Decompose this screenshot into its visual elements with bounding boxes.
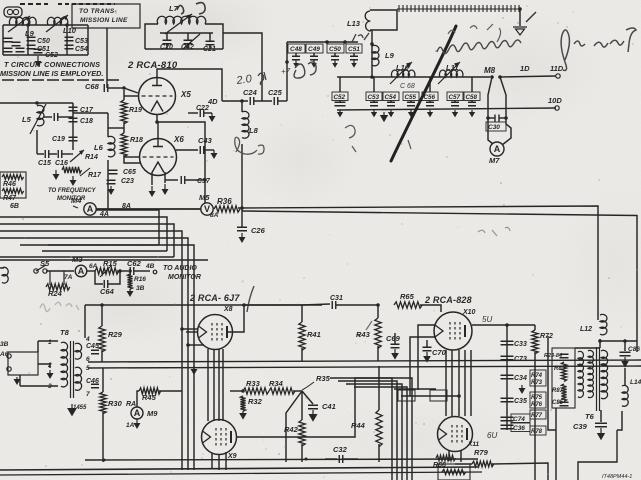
wire C55 lead xyxy=(410,101,412,103)
label C34 xyxy=(514,375,527,382)
capacitor C52i xyxy=(34,49,43,53)
wire tank bottom xyxy=(145,48,223,50)
junction x5 cath xyxy=(155,120,159,124)
label R34 xyxy=(269,379,284,388)
svg-text:R24: R24 xyxy=(48,289,63,298)
svg-text:R75: R75 xyxy=(531,395,543,401)
junction c62 xyxy=(128,269,132,273)
label C53 xyxy=(75,38,88,45)
meter M5 xyxy=(201,203,213,215)
svg-text:C25: C25 xyxy=(268,88,283,97)
wire bus line 2 xyxy=(0,217,167,251)
capacitor C42 xyxy=(184,40,193,44)
svg-text:C64: C64 xyxy=(100,287,115,296)
label C19 xyxy=(52,136,65,143)
label X5 xyxy=(180,90,191,99)
svg-text:C53: C53 xyxy=(368,94,380,101)
left edge coil wire xyxy=(0,267,4,269)
capacitor C56 sym xyxy=(426,102,434,106)
svg-text:5U: 5U xyxy=(482,315,492,324)
wire c30 b xyxy=(499,117,506,119)
svg-text:R46: R46 xyxy=(3,181,16,188)
label C30 xyxy=(488,124,500,131)
network box xyxy=(552,348,575,408)
wire c32 out xyxy=(343,458,358,460)
wire c26 lead xyxy=(241,211,243,227)
resistor R43 xyxy=(375,318,381,348)
ground C22 xyxy=(209,113,216,122)
wire bottom right jog xyxy=(578,430,617,480)
wire x11 grid row b xyxy=(401,395,459,397)
label R19 xyxy=(129,107,142,114)
resistor R46 box xyxy=(0,172,26,198)
wire t6 top xyxy=(575,347,600,349)
svg-text:8A: 8A xyxy=(210,212,219,219)
wire c86 lead xyxy=(624,341,626,351)
junction x8 grid tap xyxy=(180,327,184,331)
wire c410 lead xyxy=(334,53,336,56)
capacitor C19 xyxy=(69,137,78,141)
capacitor inset e3 xyxy=(4,48,13,52)
wire C57 lead xyxy=(454,101,456,103)
arrowhead L7 xyxy=(186,14,192,20)
capacitor inset e2 xyxy=(12,42,21,46)
wire c31 out xyxy=(336,304,378,306)
inductor L11b xyxy=(439,70,463,77)
svg-text:C74: C74 xyxy=(513,416,525,423)
wire C53 lead xyxy=(373,101,375,103)
wire x8 cath tap xyxy=(188,344,204,346)
pen diagonal stroke xyxy=(391,26,456,161)
label L11b xyxy=(446,63,458,72)
svg-text:L6: L6 xyxy=(94,143,104,152)
ground C52 xyxy=(337,110,343,117)
label C24 xyxy=(243,88,258,97)
label R77 xyxy=(531,413,543,419)
resistor R72 xyxy=(532,330,538,354)
wire C56 lead xyxy=(429,101,431,103)
capacitor C32 xyxy=(339,455,343,463)
svg-text:M9: M9 xyxy=(147,409,158,418)
svg-text:3B: 3B xyxy=(136,285,145,292)
wire c43 gnd lead xyxy=(204,149,214,151)
capacitor C69 xyxy=(391,344,400,348)
wire c69 lead xyxy=(394,333,396,344)
wire tank to plate node xyxy=(223,33,262,101)
text MONITOR xyxy=(57,196,86,202)
label box R78 xyxy=(530,426,546,435)
label C22 xyxy=(196,105,209,112)
ground C54 xyxy=(388,110,394,117)
svg-text:R47: R47 xyxy=(3,195,17,202)
wire bus 368 xyxy=(88,366,641,368)
label 8A m5 xyxy=(210,212,219,219)
choke hatched line xyxy=(397,8,520,10)
svg-text:C58: C58 xyxy=(466,94,478,101)
wire c64 loop2 xyxy=(108,271,120,284)
svg-text:C33: C33 xyxy=(514,341,527,348)
handwriting C68b xyxy=(400,83,415,90)
wire c37 to m5 xyxy=(204,180,206,203)
label box C36 xyxy=(511,423,530,432)
tube X10 xyxy=(434,312,472,350)
inductor L12 xyxy=(600,314,607,334)
small box b xyxy=(430,390,447,401)
inductor L8 xyxy=(242,111,249,138)
underline text xyxy=(2,79,120,81)
arrowhead L9 xyxy=(25,16,30,21)
label C51b xyxy=(348,46,360,53)
junction bus a xyxy=(103,459,106,462)
wire r19 join xyxy=(123,122,125,133)
svg-text:3B: 3B xyxy=(0,341,9,348)
wire c48 left xyxy=(286,42,288,62)
label pin5 xyxy=(86,365,90,372)
capacitor C35 xyxy=(501,398,514,402)
ground x8 area xyxy=(191,366,198,375)
wire x10 plate xyxy=(472,324,535,326)
label R32 xyxy=(248,397,263,406)
label M4 xyxy=(71,196,82,205)
ground c23 xyxy=(108,186,115,195)
meter M3 xyxy=(75,265,87,277)
label R35 xyxy=(316,374,331,383)
label C39 xyxy=(573,422,588,431)
capacitor C57 sym xyxy=(451,102,459,106)
resistor R47 xyxy=(2,189,24,194)
arrow C42 variable xyxy=(184,34,200,48)
wire inset c50 drop xyxy=(27,25,29,55)
label L13 xyxy=(347,19,361,28)
resistor R15 xyxy=(95,268,119,274)
svg-text:R29: R29 xyxy=(108,330,123,339)
junction x8 cath tap xyxy=(186,343,190,347)
wire pad2 xyxy=(58,116,73,118)
svg-text:C34: C34 xyxy=(514,375,527,382)
svg-text:1455: 1455 xyxy=(73,405,87,411)
label 4A xyxy=(99,211,109,218)
terminal 10D xyxy=(555,106,559,110)
svg-text:C70: C70 xyxy=(432,348,447,357)
label 1D xyxy=(520,64,530,73)
arrow L9 variable xyxy=(8,16,30,32)
wire L8 top xyxy=(241,101,243,112)
label C51 xyxy=(37,46,50,53)
junction x11 g xyxy=(457,394,461,398)
svg-text:C41: C41 xyxy=(322,402,336,411)
capacitor C50 xyxy=(27,37,36,41)
svg-text:C69: C69 xyxy=(386,334,401,343)
svg-text:L12: L12 xyxy=(580,326,592,333)
capacitor C37 xyxy=(181,176,185,184)
label 8A xyxy=(122,203,131,210)
resistor R16 xyxy=(128,274,133,289)
junction choke right xyxy=(518,7,522,11)
label R41 xyxy=(307,330,321,339)
svg-text:10D: 10D xyxy=(548,96,562,105)
wire c24 row xyxy=(222,100,248,102)
ground caps rail xyxy=(380,112,388,122)
wire c48 box drop xyxy=(286,62,288,101)
wire r79 in xyxy=(455,463,472,465)
svg-text:L8: L8 xyxy=(249,126,259,135)
wire x10 grid a xyxy=(418,325,436,390)
capacitor inset e1 xyxy=(4,38,13,42)
label pin3 xyxy=(48,383,52,390)
wire x5 cathode down xyxy=(156,114,158,122)
arrowhead L11b xyxy=(454,62,460,68)
junction r29 top xyxy=(100,303,104,307)
svg-text:L9: L9 xyxy=(385,51,395,60)
wire x8x9 vert 4 xyxy=(222,349,224,421)
svg-text:MISSION LINE: MISSION LINE xyxy=(80,17,128,24)
capacitor C17 xyxy=(69,107,78,111)
label L5 xyxy=(22,115,32,124)
wire x8x9 vert 2 xyxy=(213,349,215,421)
label T8 xyxy=(60,328,70,337)
pen tick c31 xyxy=(357,321,372,337)
wire x8x9 vert 1 xyxy=(207,349,209,421)
label C56b xyxy=(424,94,436,101)
label C50 xyxy=(37,38,50,45)
ground X6 b xyxy=(162,184,169,195)
capacitor C24 xyxy=(250,97,254,105)
junction L8 bus xyxy=(240,206,244,210)
inductor L14 xyxy=(622,385,628,406)
text part number xyxy=(602,474,632,480)
junction c30 b xyxy=(504,116,508,120)
resistor R65 xyxy=(394,302,422,308)
transformer T6 secondary xyxy=(601,350,608,398)
junction c48 left xyxy=(285,60,289,64)
label 4B xyxy=(145,263,155,270)
junction c86 xyxy=(623,339,627,343)
junction m8 b xyxy=(498,75,502,79)
capacitor C30 xyxy=(495,115,499,122)
wire c15-16 xyxy=(49,153,57,155)
bottom bus line 1 xyxy=(85,459,478,460)
label R72 xyxy=(540,333,553,340)
box to transmission line xyxy=(72,4,140,28)
wire c20 low xyxy=(166,44,168,49)
capacitor C74 xyxy=(501,417,514,421)
wire top dashes 2 xyxy=(58,3,115,5)
svg-text:R43: R43 xyxy=(356,330,371,339)
svg-text:R45: R45 xyxy=(142,393,157,402)
wire inset right drop xyxy=(87,25,89,55)
label R47 xyxy=(3,195,17,202)
arrow R14 pot xyxy=(70,150,84,162)
wire inbox up xyxy=(37,341,39,352)
pencil faint word xyxy=(40,302,79,311)
wire c37 lead xyxy=(165,179,178,181)
wire t8 p1 xyxy=(38,340,58,342)
label box R74 R73 xyxy=(530,370,546,386)
svg-text:R35: R35 xyxy=(316,374,331,383)
svg-text:C39: C39 xyxy=(573,422,588,431)
resistor R29 xyxy=(99,326,105,352)
svg-text:C49: C49 xyxy=(308,46,320,53)
svg-text:C48: C48 xyxy=(290,46,302,53)
wire center vert 4 xyxy=(354,387,407,480)
label R24 xyxy=(48,289,63,298)
label M5 xyxy=(199,193,210,202)
svg-text:A: A xyxy=(494,144,501,154)
svg-text:C54: C54 xyxy=(75,46,88,53)
wire L13 box xyxy=(370,10,397,30)
transformer T8 core xyxy=(71,341,74,398)
label T6 xyxy=(585,412,595,421)
label C46 xyxy=(86,378,99,385)
label pin4 xyxy=(85,336,90,343)
inductor L9 inset xyxy=(9,17,36,25)
inductor L7 xyxy=(157,16,206,24)
wire x5 grid xyxy=(124,95,138,97)
handwriting 1D2 xyxy=(352,33,369,42)
pen marks 50 xyxy=(235,137,264,154)
junction L9b top xyxy=(370,42,374,46)
handwriting 2.08 tail xyxy=(258,72,266,85)
label C52i xyxy=(45,52,58,59)
ground C26 xyxy=(239,233,246,243)
capacitor C410 sym xyxy=(331,56,339,60)
ground c86 xyxy=(621,357,629,368)
label box C57b xyxy=(447,92,463,101)
bottom bus line 2 xyxy=(0,467,478,470)
svg-text:X8: X8 xyxy=(223,306,233,313)
wire r43 top xyxy=(377,305,379,318)
label C65 xyxy=(123,169,136,176)
svg-text:4: 4 xyxy=(85,336,90,343)
label R43 xyxy=(356,330,371,339)
wire c17 col xyxy=(72,103,74,150)
ground c15 xyxy=(53,170,60,180)
handwriting 47 xyxy=(281,67,291,76)
label C62 xyxy=(127,259,142,268)
svg-text:R74: R74 xyxy=(531,373,543,379)
label R14 xyxy=(85,154,98,161)
svg-text:X6: X6 xyxy=(173,135,184,144)
label M9 xyxy=(147,409,158,418)
wire x11 grid row a xyxy=(394,388,436,390)
wire c21 low xyxy=(209,45,211,49)
wire x8 plate to r41 xyxy=(244,305,302,322)
wire r43 bot xyxy=(377,346,379,361)
label C68 xyxy=(85,82,100,91)
transformer T6 core xyxy=(597,347,600,411)
wire C53 top xyxy=(373,77,375,92)
label R36 b xyxy=(217,197,232,206)
label R18 xyxy=(130,137,143,144)
wire bus top right xyxy=(238,206,598,320)
label RA xyxy=(126,401,136,408)
svg-text:T8: T8 xyxy=(60,328,70,337)
label C54 xyxy=(75,46,88,53)
ground C57 xyxy=(452,110,458,117)
svg-text:C37: C37 xyxy=(197,178,211,185)
junction plate node xyxy=(505,323,509,327)
wire r19 r18 link xyxy=(108,127,124,129)
svg-text:MISSION LINE IS EMPLOYED.: MISSION LINE IS EMPLOYED. xyxy=(0,69,103,78)
svg-text:C52: C52 xyxy=(45,52,58,59)
label box C74 xyxy=(511,414,530,423)
svg-text:L5: L5 xyxy=(22,115,32,124)
wire tank left xyxy=(145,24,158,49)
capacitor C23 xyxy=(107,180,116,184)
label M3 xyxy=(72,255,83,264)
capacitor C54 xyxy=(65,45,74,49)
svg-text:L7: L7 xyxy=(169,4,179,13)
wire net left xyxy=(548,336,556,430)
rheostat R24 posts xyxy=(50,271,64,285)
label box C53b xyxy=(366,92,382,101)
wire to 11D xyxy=(500,76,556,77)
wire c15 row xyxy=(37,153,44,155)
label box C50b xyxy=(327,44,344,53)
label M7 xyxy=(489,156,500,165)
pen marks mid xyxy=(345,125,411,152)
wire x10 bottom vert 3 xyxy=(458,350,460,416)
wire c32 in xyxy=(325,458,337,460)
label M8 xyxy=(484,66,496,75)
handwriting pen loops xyxy=(294,62,316,78)
text MONITOR audio xyxy=(168,274,201,281)
wire x6 grid xyxy=(124,156,139,158)
capacitor C73 xyxy=(501,356,514,360)
arrow L11 var xyxy=(438,62,460,84)
connector block xyxy=(4,7,22,17)
svg-text:R44: R44 xyxy=(351,421,366,430)
label L7 xyxy=(169,4,179,13)
label C86 xyxy=(628,346,640,353)
ground c70 xyxy=(423,352,431,363)
wire osc right xyxy=(37,102,73,104)
wire tank right xyxy=(205,24,223,49)
ground c39 xyxy=(597,428,605,440)
wire inset c53 drop xyxy=(66,25,68,55)
label C55b xyxy=(405,94,417,101)
wire center vert 1 xyxy=(330,378,392,480)
svg-text:R77: R77 xyxy=(531,413,543,419)
capacitor C62 xyxy=(130,267,134,275)
label TO TRANS- xyxy=(79,8,117,15)
wire m4 to m5 xyxy=(96,208,201,210)
svg-text:L14: L14 xyxy=(630,379,641,386)
label MISSION LINE xyxy=(80,17,128,24)
svg-text:C18: C18 xyxy=(80,118,93,125)
label R76 xyxy=(531,402,543,408)
wire x9 pin b xyxy=(218,455,220,470)
switch S5 b xyxy=(43,269,47,273)
ground c48 xyxy=(293,60,299,68)
label R16 xyxy=(134,276,146,283)
svg-text:C19: C19 xyxy=(52,136,65,143)
label 1A xyxy=(126,422,135,429)
capacitor C21 xyxy=(206,41,215,45)
svg-text:C20: C20 xyxy=(160,44,173,51)
svg-text:C50: C50 xyxy=(329,46,341,53)
wire pad xyxy=(44,116,52,118)
svg-text:TO TRANS-: TO TRANS- xyxy=(79,8,117,15)
wire r79 out xyxy=(492,463,548,480)
ground C53 xyxy=(371,110,377,117)
wire c68 out xyxy=(108,87,124,89)
junction inset a xyxy=(26,23,30,27)
inductor L10b xyxy=(391,70,415,77)
wire L8 bottom xyxy=(241,144,243,211)
label C69 xyxy=(386,334,401,343)
wire r15-c62 xyxy=(117,270,128,272)
